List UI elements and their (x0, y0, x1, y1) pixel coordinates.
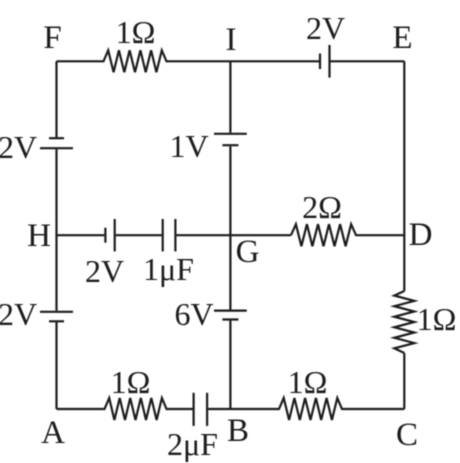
svg-text:A: A (41, 415, 65, 451)
svg-text:2μF: 2μF (167, 426, 218, 462)
svg-text:2V: 2V (306, 10, 345, 46)
svg-text:6V: 6V (174, 296, 213, 332)
svg-text:E: E (392, 20, 412, 56)
svg-text:2V: 2V (0, 296, 37, 332)
svg-text:1Ω: 1Ω (116, 14, 156, 50)
svg-text:1Ω: 1Ω (417, 301, 457, 337)
svg-text:1Ω: 1Ω (111, 364, 151, 400)
svg-text:D: D (409, 217, 433, 253)
svg-text:2Ω: 2Ω (302, 189, 342, 225)
svg-text:F: F (43, 20, 61, 56)
svg-text:1Ω: 1Ω (288, 364, 328, 400)
svg-text:H: H (27, 218, 51, 254)
svg-text:2V: 2V (85, 253, 124, 289)
svg-text:I: I (226, 22, 237, 58)
svg-text:2V: 2V (0, 129, 37, 165)
svg-text:B: B (227, 413, 249, 449)
svg-text:1μF: 1μF (143, 251, 194, 287)
svg-text:1V: 1V (169, 128, 208, 164)
svg-text:G: G (236, 234, 260, 270)
svg-text:C: C (396, 417, 418, 453)
